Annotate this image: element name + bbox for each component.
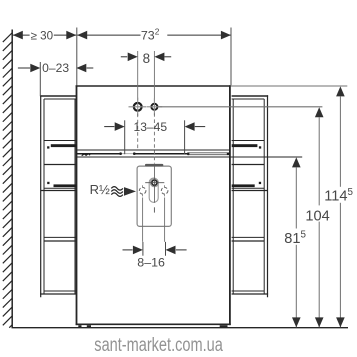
svg-text:sant-market.com.ua: sant-market.com.ua — [94, 335, 223, 356]
svg-text:8: 8 — [143, 51, 150, 66]
svg-text:R½: R½ — [90, 182, 110, 197]
svg-text:8–16: 8–16 — [137, 255, 165, 269]
svg-text:104: 104 — [305, 208, 329, 224]
svg-text:13–45: 13–45 — [133, 120, 167, 134]
svg-text:≥ 30: ≥ 30 — [31, 29, 53, 42]
svg-text:0–23: 0–23 — [42, 61, 69, 75]
